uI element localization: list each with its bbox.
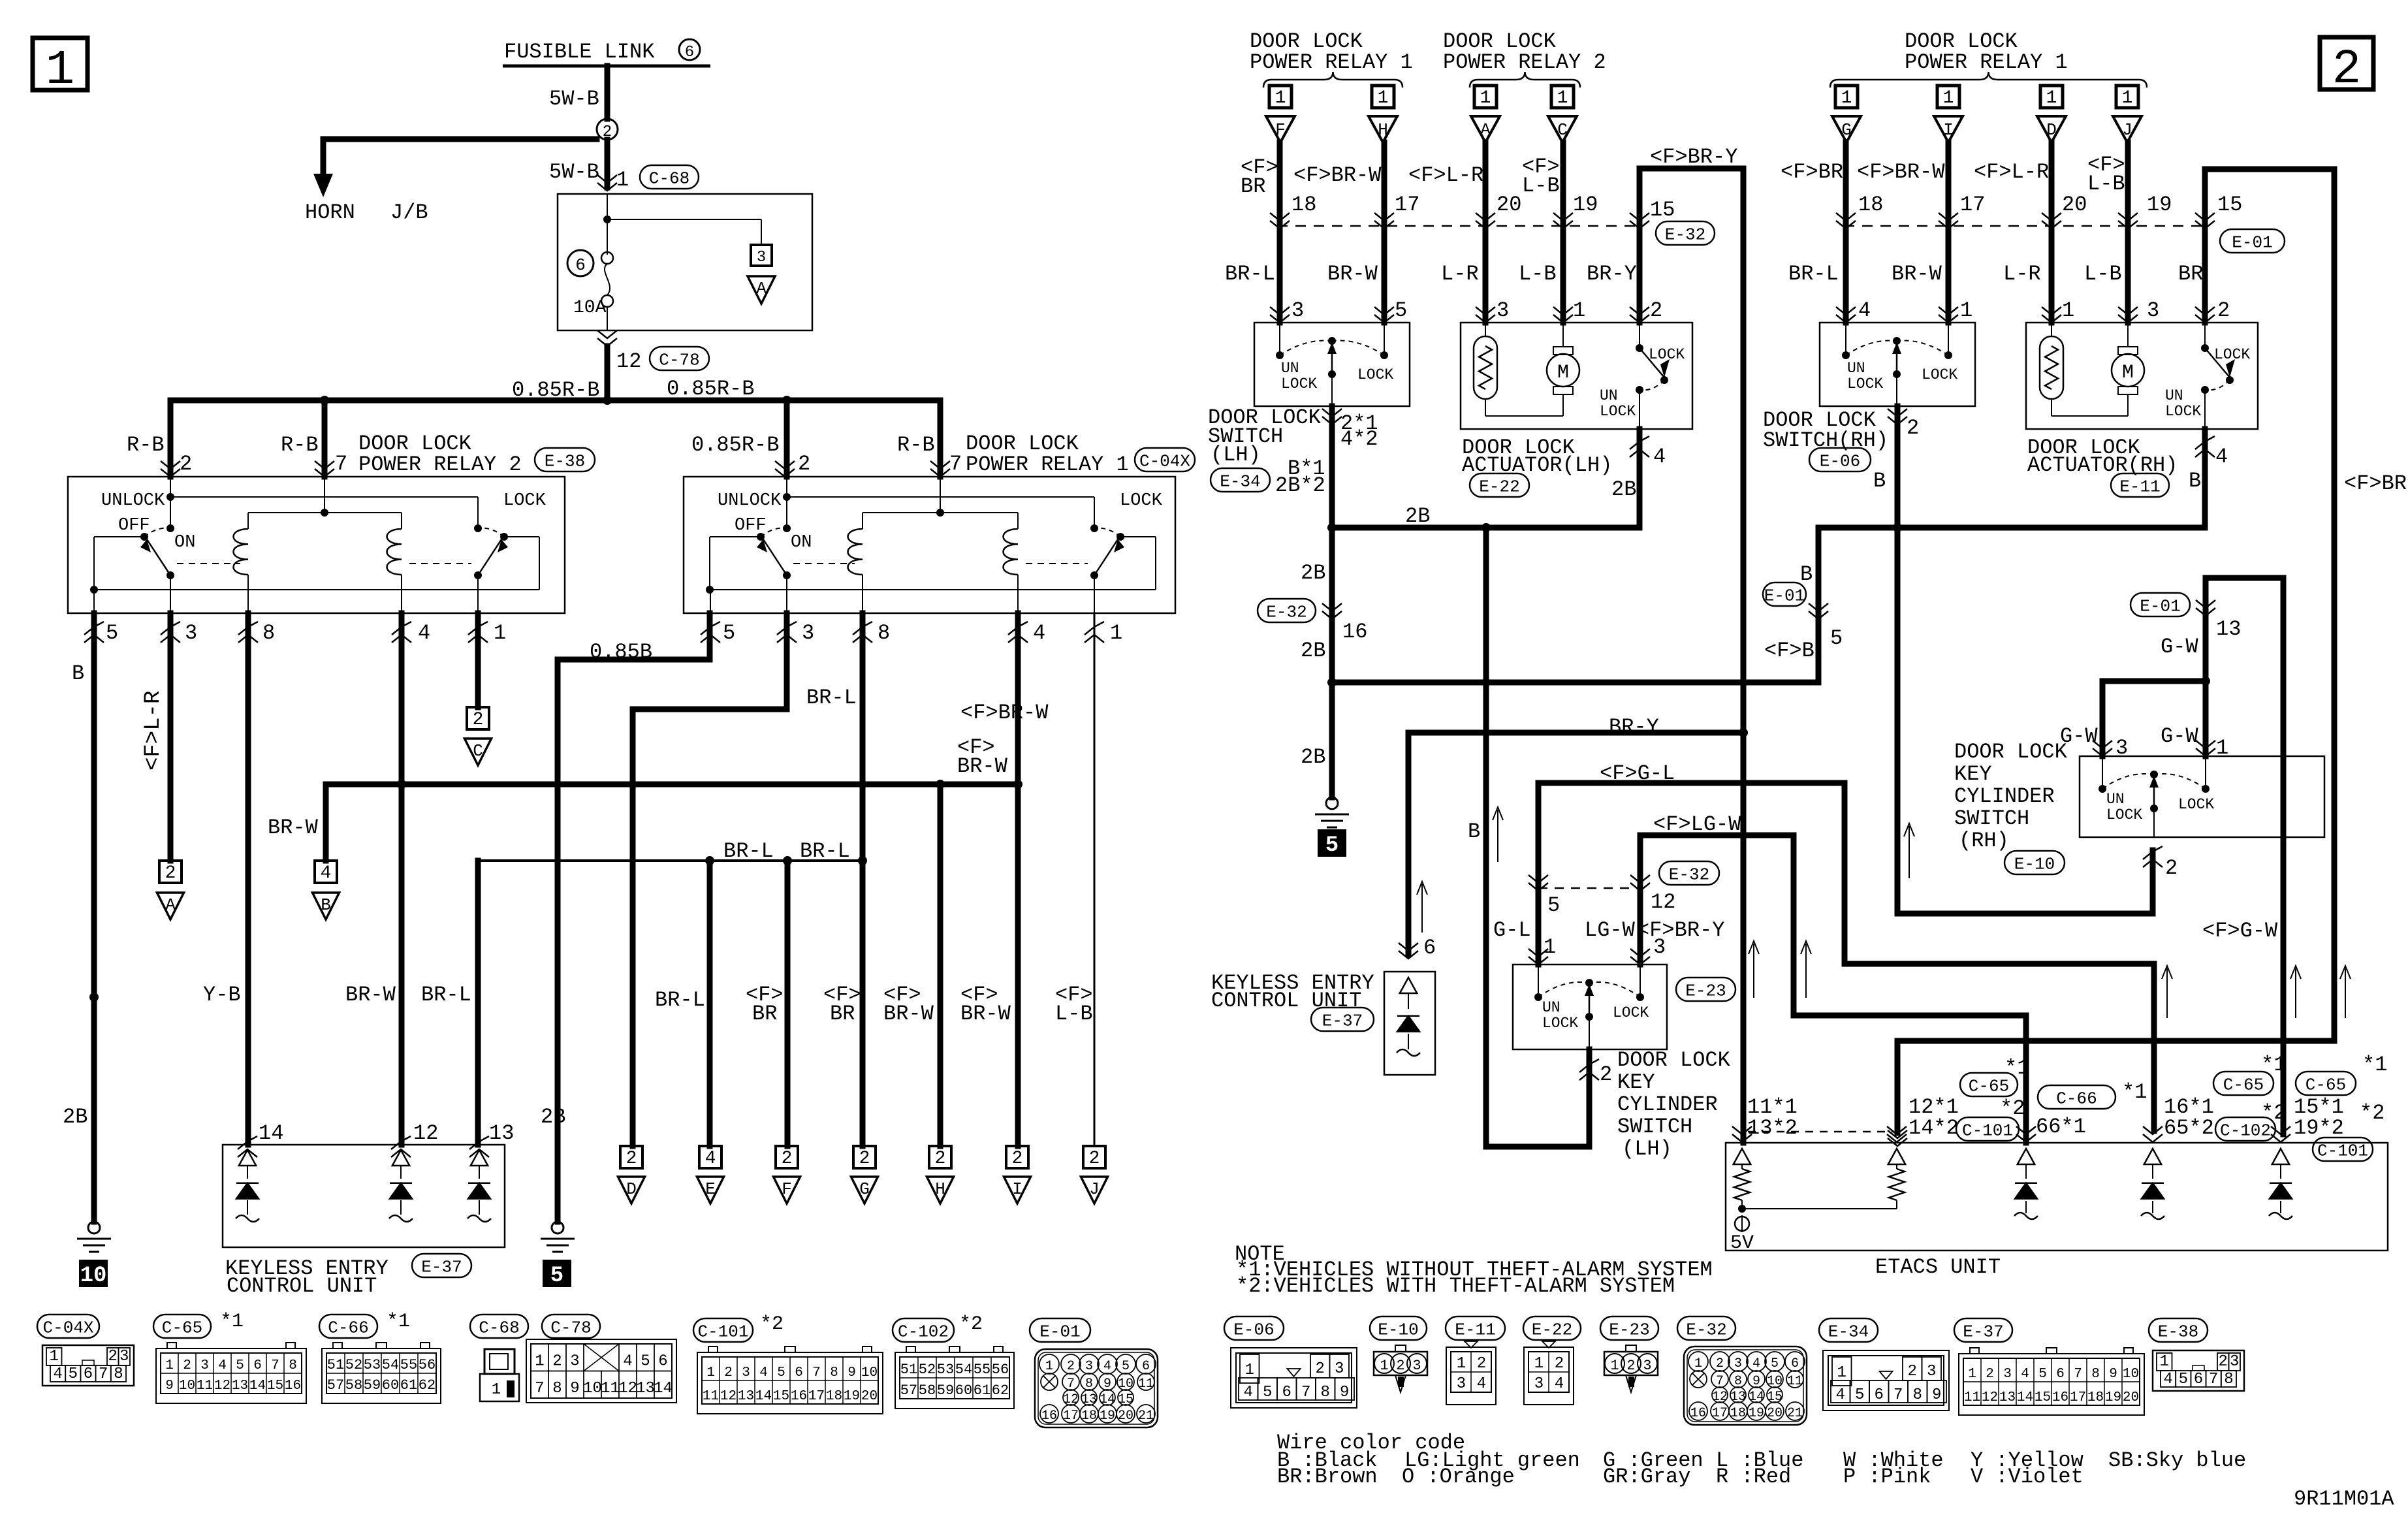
svg-text:LOCK: LOCK (1357, 366, 1393, 383)
svg-text:20: 20 (1497, 193, 1521, 217)
svg-text:5: 5 (2179, 1371, 2188, 1388)
svg-text:2: 2 (724, 1365, 733, 1380)
svg-text:BR: BR (830, 1002, 855, 1026)
svg-text:BR-Y: BR-Y (1587, 262, 1637, 286)
svg-text:4: 4 (418, 621, 430, 645)
svg-text:SWITCH: SWITCH (1954, 806, 2029, 831)
svg-text:C-101: C-101 (1962, 1121, 2013, 1140)
svg-text:<F>L-R: <F>L-R (1408, 163, 1483, 187)
svg-text:18: 18 (826, 1389, 842, 1404)
svg-text:4: 4 (705, 1149, 716, 1169)
svg-text:*1: *1 (2261, 1053, 2286, 1077)
svg-text:7: 7 (2074, 1367, 2082, 1382)
svg-text:2B: 2B (541, 1105, 565, 1129)
svg-text:BR-L: BR-L (1788, 262, 1839, 286)
svg-text:62: 62 (992, 1382, 1009, 1399)
svg-text:G: G (859, 1179, 870, 1199)
svg-text:*1: *1 (387, 1311, 410, 1333)
svg-text:*2: *2 (959, 1313, 983, 1335)
svg-text:3: 3 (1927, 1363, 1936, 1380)
svg-text:58: 58 (345, 1377, 362, 1394)
svg-text:KEY: KEY (1954, 762, 1992, 786)
svg-text:BR-L: BR-L (421, 983, 471, 1007)
svg-text:3: 3 (119, 1348, 129, 1365)
svg-text:BR-L: BR-L (806, 686, 857, 710)
svg-text:D: D (2046, 120, 2057, 140)
svg-text:1: 1 (706, 1365, 715, 1380)
svg-text:6: 6 (685, 44, 694, 61)
svg-text:B: B (1468, 820, 1480, 844)
svg-text:2: 2 (180, 452, 192, 476)
svg-text:13: 13 (232, 1379, 248, 1394)
svg-text:6: 6 (2194, 1371, 2203, 1388)
svg-text:I: I (1943, 120, 1954, 140)
svg-text:*2: *2 (2360, 1101, 2384, 1125)
svg-text:18: 18 (1291, 193, 1316, 217)
svg-text:E-01: E-01 (2140, 596, 2180, 616)
svg-text:UN: UN (1600, 387, 1618, 404)
svg-text:1: 1 (535, 1353, 544, 1371)
svg-text:<F>G-W: <F>G-W (2202, 919, 2278, 943)
svg-text:G-W: G-W (2161, 724, 2198, 748)
svg-text:2: 2 (1477, 1355, 1486, 1373)
svg-text:E-23: E-23 (1685, 981, 1726, 1000)
svg-text:3: 3 (1412, 1358, 1421, 1374)
svg-text:E-06: E-06 (1233, 1320, 1274, 1339)
svg-text:E-34: E-34 (1220, 471, 1260, 491)
svg-text:UN: UN (2106, 791, 2125, 808)
svg-text:LG-W: LG-W (1585, 918, 1636, 942)
svg-text:60: 60 (382, 1377, 399, 1394)
svg-text:1: 1 (1960, 298, 1972, 323)
svg-text:L-B: L-B (1055, 1002, 1093, 1026)
svg-text:20: 20 (2062, 193, 2087, 217)
svg-text:16: 16 (1690, 1406, 1706, 1421)
svg-text:7: 7 (271, 1358, 279, 1373)
svg-text:BR-W: BR-W (883, 1002, 934, 1026)
svg-text:59: 59 (364, 1377, 381, 1394)
svg-text:G: G (1841, 120, 1852, 140)
svg-text:7: 7 (335, 452, 347, 476)
svg-text:17: 17 (1960, 193, 1985, 217)
svg-text:BR-L: BR-L (723, 839, 774, 863)
svg-text:POWER RELAY 2: POWER RELAY 2 (1443, 50, 1606, 74)
svg-text:*2: *2 (760, 1313, 784, 1335)
svg-text:L-B: L-B (1522, 174, 1560, 198)
svg-text:L-R: L-R (2003, 262, 2041, 286)
svg-text:LOCK: LOCK (2106, 806, 2142, 823)
svg-text:3: 3 (1653, 935, 1666, 959)
svg-text:3: 3 (570, 1353, 579, 1371)
svg-text:R :Red: R :Red (1716, 1465, 1791, 1489)
svg-text:1: 1 (2062, 298, 2074, 323)
svg-text:1: 1 (494, 621, 506, 645)
svg-text:*2:VEHICLES WITH THEFT-ALARM S: *2:VEHICLES WITH THEFT-ALARM SYSTEM (1236, 1274, 1675, 1298)
svg-text:ETACS UNIT: ETACS UNIT (1875, 1255, 2001, 1279)
svg-text:POWER RELAY 1: POWER RELAY 1 (1250, 50, 1413, 74)
svg-text:A: A (756, 279, 767, 298)
svg-text:1: 1 (1534, 1355, 1544, 1373)
svg-text:3: 3 (2147, 298, 2159, 323)
svg-text:3: 3 (1457, 1375, 1466, 1393)
svg-text:1: 1 (1275, 88, 1286, 108)
svg-text:4: 4 (1752, 1356, 1760, 1371)
svg-text:3: 3 (1734, 1356, 1742, 1371)
svg-text:4: 4 (1858, 298, 1871, 323)
svg-text:1: 1 (1841, 88, 1852, 108)
svg-text:HORN: HORN (305, 200, 355, 225)
svg-text:E-10: E-10 (2014, 854, 2055, 874)
svg-text:12: 12 (618, 1380, 637, 1397)
svg-text:1: 1 (165, 1358, 174, 1373)
svg-text:3: 3 (2230, 1353, 2239, 1371)
svg-text:E-37: E-37 (1322, 1011, 1363, 1030)
svg-text:5: 5 (550, 1264, 563, 1288)
svg-text:1: 1 (50, 1348, 59, 1365)
svg-text:BR-W: BR-W (960, 1002, 1011, 1026)
svg-text:E-37: E-37 (421, 1257, 462, 1277)
svg-text:11: 11 (703, 1389, 719, 1404)
svg-text:(LH): (LH) (1622, 1137, 1672, 1161)
svg-text:<F>BR-W: <F>BR-W (960, 701, 1049, 725)
svg-text:4: 4 (2021, 1367, 2029, 1382)
svg-text:2: 2 (2217, 298, 2230, 323)
svg-text:BR:Brown: BR:Brown (1277, 1465, 1378, 1489)
svg-text:BR-L: BR-L (655, 988, 705, 1012)
svg-text:8: 8 (1913, 1386, 1922, 1404)
svg-text:2B: 2B (63, 1105, 87, 1129)
svg-text:R-B: R-B (127, 433, 165, 457)
svg-text:*1: *1 (2122, 1080, 2147, 1104)
svg-text:10A: 10A (573, 298, 607, 318)
svg-text:B: B (321, 895, 331, 915)
svg-text:2: 2 (626, 1149, 637, 1169)
svg-text:10: 10 (179, 1379, 195, 1394)
svg-text:6: 6 (575, 255, 586, 275)
svg-text:13: 13 (489, 1121, 514, 1145)
svg-text:M: M (2122, 362, 2134, 384)
svg-text:BR-W: BR-W (1892, 262, 1942, 286)
svg-text:6: 6 (1791, 1356, 1799, 1371)
svg-text:1: 1 (2122, 88, 2133, 108)
svg-text:8: 8 (262, 621, 275, 645)
svg-text:1: 1 (1380, 1358, 1388, 1374)
svg-text:UN: UN (1281, 360, 1299, 377)
svg-text:9: 9 (1340, 1384, 1349, 1401)
svg-text:LOCK: LOCK (503, 491, 547, 511)
svg-text:4: 4 (2215, 445, 2228, 469)
svg-text:52: 52 (345, 1357, 362, 1373)
svg-text:<F>BR: <F>BR (2344, 471, 2407, 496)
svg-text:E-23: E-23 (1609, 1320, 1649, 1339)
svg-text:E-37: E-37 (1963, 1322, 2003, 1341)
svg-text:A: A (165, 895, 176, 915)
svg-text:L-B: L-B (1519, 262, 1557, 286)
svg-text:9: 9 (848, 1365, 856, 1380)
svg-text:1: 1 (1378, 88, 1389, 108)
svg-text:E-38: E-38 (545, 451, 585, 471)
svg-text:5: 5 (1830, 626, 1843, 650)
svg-text:51: 51 (327, 1357, 344, 1373)
svg-text:R-B: R-B (897, 433, 935, 457)
svg-text:11: 11 (1138, 1377, 1154, 1392)
svg-text:KEY: KEY (1617, 1070, 1655, 1094)
svg-text:5: 5 (777, 1365, 785, 1380)
svg-text:O :Orange: O :Orange (1402, 1465, 1515, 1489)
svg-text:E-01: E-01 (1764, 586, 1805, 605)
svg-text:UNLOCK: UNLOCK (101, 491, 165, 511)
svg-text:4*2: 4*2 (1340, 427, 1378, 451)
svg-text:3: 3 (1085, 1359, 1093, 1374)
svg-text:5: 5 (1122, 1359, 1130, 1374)
svg-text:LOCK: LOCK (1542, 1015, 1578, 1032)
svg-text:4: 4 (1836, 1386, 1845, 1404)
svg-text:0.85R-B: 0.85R-B (691, 433, 779, 457)
svg-text:2: 2 (1396, 1358, 1404, 1374)
svg-text:13: 13 (636, 1380, 655, 1397)
svg-text:2: 2 (1907, 416, 1919, 440)
svg-text:G-W: G-W (2161, 635, 2198, 659)
svg-text:BR-W: BR-W (268, 816, 319, 840)
svg-text:2: 2 (1316, 1360, 1325, 1378)
svg-text:E-34: E-34 (1828, 1322, 1869, 1341)
svg-text:5: 5 (1263, 1384, 1272, 1401)
svg-text:14: 14 (2017, 1390, 2033, 1405)
svg-text:11: 11 (1964, 1390, 1980, 1405)
svg-text:4: 4 (1244, 1384, 1253, 1401)
svg-text:10: 10 (583, 1380, 602, 1397)
svg-text:<F>BR: <F>BR (1781, 160, 1843, 184)
svg-text:LOCK: LOCK (1922, 366, 1957, 383)
svg-text:6: 6 (795, 1365, 803, 1380)
svg-text:13*2: 13*2 (1747, 1116, 1798, 1140)
svg-text:<F>BR-Y: <F>BR-Y (1637, 918, 1724, 942)
svg-text:19: 19 (2147, 193, 2172, 217)
svg-text:2B: 2B (1301, 745, 1325, 769)
svg-text:ON: ON (174, 533, 195, 552)
svg-text:2B: 2B (1611, 477, 1636, 502)
svg-text:7: 7 (812, 1365, 821, 1380)
svg-text:57: 57 (327, 1377, 344, 1394)
svg-text:F: F (782, 1179, 792, 1199)
svg-text:E-32: E-32 (1669, 865, 1709, 884)
svg-text:1: 1 (46, 43, 74, 98)
svg-text:2: 2 (859, 1149, 870, 1169)
svg-text:*1: *1 (220, 1311, 244, 1333)
svg-text:4: 4 (218, 1358, 227, 1373)
svg-text:1: 1 (1610, 1358, 1619, 1374)
svg-text:BR-L: BR-L (1225, 262, 1275, 286)
svg-text:V :Violet: V :Violet (1971, 1465, 2083, 1489)
svg-text:8: 8 (114, 1365, 123, 1383)
svg-text:J: J (1089, 1179, 1100, 1199)
svg-text:POWER RELAY 2: POWER RELAY 2 (358, 453, 522, 477)
svg-text:2: 2 (935, 1149, 946, 1169)
svg-text:3: 3 (200, 1358, 209, 1373)
svg-text:8: 8 (1321, 1384, 1330, 1401)
svg-text:M: M (1557, 362, 1569, 384)
svg-text:C-65: C-65 (2223, 1075, 2264, 1094)
svg-text:SB:Sky blue: SB:Sky blue (2108, 1448, 2246, 1473)
svg-text:E-01: E-01 (1039, 1322, 1080, 1341)
svg-text:<F>BR-W: <F>BR-W (1857, 160, 1945, 184)
svg-text:4: 4 (321, 863, 332, 884)
svg-text:11: 11 (197, 1379, 213, 1394)
svg-text:E-10: E-10 (1378, 1320, 1418, 1339)
svg-text:52: 52 (919, 1362, 936, 1378)
svg-text:UN: UN (2165, 387, 2183, 404)
svg-text:E-22: E-22 (1479, 477, 1519, 496)
svg-text:18: 18 (1858, 193, 1883, 217)
svg-text:19: 19 (2105, 1390, 2121, 1405)
svg-text:I: I (1012, 1179, 1022, 1199)
svg-text:20: 20 (1767, 1406, 1782, 1421)
svg-text:C-68: C-68 (479, 1318, 519, 1337)
svg-text:A: A (1480, 120, 1491, 140)
svg-text:2: 2 (2165, 856, 2178, 880)
svg-text:C-78: C-78 (659, 350, 699, 370)
svg-text:19: 19 (1573, 193, 1598, 217)
svg-text:LOCK: LOCK (2165, 403, 2201, 420)
svg-text:UNLOCK: UNLOCK (718, 491, 782, 511)
svg-text:58: 58 (919, 1382, 936, 1399)
svg-text:5: 5 (106, 621, 118, 645)
svg-text:3: 3 (2003, 1367, 2012, 1382)
svg-text:65*2: 65*2 (2164, 1116, 2214, 1140)
svg-text:5W-B: 5W-B (549, 160, 599, 184)
svg-text:7: 7 (2209, 1371, 2218, 1388)
svg-text:21: 21 (1138, 1409, 1154, 1424)
svg-text:E-32: E-32 (1266, 602, 1307, 622)
svg-text:5: 5 (723, 621, 735, 645)
svg-text:2B: 2B (1301, 639, 1325, 663)
svg-text:6: 6 (2056, 1367, 2065, 1382)
svg-text:20: 20 (1118, 1409, 1133, 1424)
svg-text:55: 55 (400, 1357, 417, 1373)
svg-text:1: 1 (1045, 1359, 1053, 1374)
svg-text:1: 1 (1694, 1356, 1702, 1371)
svg-text:3: 3 (1335, 1360, 1344, 1378)
svg-text:1: 1 (1544, 935, 1556, 959)
svg-text:BR-Y: BR-Y (1609, 715, 1659, 739)
svg-text:13: 13 (738, 1389, 754, 1404)
svg-text:E-06: E-06 (1820, 451, 1860, 471)
svg-text:C-101: C-101 (697, 1322, 748, 1341)
svg-text:16: 16 (2052, 1390, 2068, 1405)
svg-text:C-65: C-65 (2305, 1075, 2346, 1094)
svg-text:*1: *1 (2362, 1053, 2387, 1077)
svg-text:LOCK: LOCK (1613, 1004, 1649, 1021)
svg-text:4: 4 (53, 1365, 62, 1383)
svg-text:3: 3 (742, 1365, 750, 1380)
svg-text:2: 2 (473, 710, 484, 730)
svg-text:2: 2 (782, 1149, 793, 1169)
svg-text:POWER RELAY 1: POWER RELAY 1 (1905, 50, 2068, 74)
svg-text:<F>BR-Y: <F>BR-Y (1650, 145, 1737, 169)
svg-text:L-B: L-B (2084, 262, 2122, 286)
svg-text:14: 14 (259, 1121, 283, 1145)
svg-text:7: 7 (99, 1365, 108, 1383)
svg-text:CYLINDER: CYLINDER (1617, 1092, 1718, 1117)
svg-text:E-32: E-32 (1686, 1320, 1726, 1339)
svg-text:8: 8 (830, 1365, 838, 1380)
svg-text:E-22: E-22 (1532, 1320, 1572, 1339)
svg-text:2: 2 (1716, 1356, 1724, 1371)
svg-text:ON: ON (791, 533, 812, 552)
svg-text:12: 12 (413, 1121, 438, 1145)
svg-text:L-R: L-R (1441, 262, 1479, 286)
svg-text:5: 5 (1395, 298, 1407, 323)
svg-text:C-04X: C-04X (1139, 451, 1190, 471)
svg-text:2: 2 (1067, 1359, 1075, 1374)
svg-text:16: 16 (285, 1379, 301, 1394)
svg-text:1: 1 (1943, 88, 1954, 108)
svg-text:6: 6 (1142, 1359, 1150, 1374)
svg-text:UN: UN (1542, 999, 1560, 1016)
svg-text:E: E (705, 1179, 716, 1199)
svg-text:7: 7 (949, 452, 962, 476)
svg-text:3: 3 (802, 621, 814, 645)
svg-text:1: 1 (616, 168, 629, 192)
svg-text:*2: *2 (2000, 1096, 2025, 1121)
svg-text:8: 8 (552, 1380, 562, 1397)
svg-text:60: 60 (955, 1382, 972, 1399)
svg-text:0.85R-B: 0.85R-B (667, 377, 754, 401)
svg-text:8: 8 (2224, 1371, 2233, 1388)
svg-text:1: 1 (1110, 621, 1122, 645)
svg-text:4: 4 (1103, 1359, 1111, 1374)
svg-text:2: 2 (1600, 1062, 1612, 1087)
svg-text:J: J (2122, 120, 2132, 140)
svg-text:5: 5 (1771, 1356, 1779, 1371)
svg-text:2: 2 (165, 863, 176, 884)
svg-text:G-L: G-L (1493, 918, 1531, 942)
svg-text:61: 61 (400, 1377, 417, 1394)
svg-text:LOCK: LOCK (1649, 346, 1685, 363)
svg-text:57: 57 (900, 1382, 917, 1399)
svg-text:18: 18 (1730, 1406, 1746, 1421)
svg-text:<F>L-R: <F>L-R (141, 691, 166, 771)
svg-text:9: 9 (1932, 1386, 1941, 1404)
svg-text:F: F (1275, 120, 1286, 140)
svg-text:C-04X: C-04X (42, 1318, 93, 1337)
svg-text:E-11: E-11 (1455, 1320, 1495, 1339)
svg-text:LOCK: LOCK (1281, 375, 1317, 392)
svg-text:OFF: OFF (735, 516, 767, 535)
svg-text:12: 12 (214, 1379, 230, 1394)
svg-text:2: 2 (2219, 1353, 2228, 1371)
svg-text:<F>LG-W: <F>LG-W (1653, 812, 1741, 837)
svg-text:DOOR LOCK: DOOR LOCK (1617, 1048, 1731, 1072)
svg-text:GR:Gray: GR:Gray (1603, 1465, 1690, 1489)
svg-text:BR: BR (752, 1002, 777, 1026)
svg-text:6: 6 (1282, 1384, 1291, 1401)
svg-text:1: 1 (1837, 1364, 1846, 1382)
svg-text:8: 8 (289, 1358, 297, 1373)
svg-text:53: 53 (364, 1357, 381, 1373)
svg-text:6: 6 (253, 1358, 262, 1373)
svg-text:4: 4 (1653, 445, 1666, 469)
svg-text:2: 2 (1650, 298, 1662, 323)
svg-text:8: 8 (2091, 1367, 2100, 1382)
svg-text:4: 4 (1555, 1375, 1564, 1393)
svg-text:4: 4 (1477, 1375, 1486, 1393)
svg-text:18: 18 (1081, 1409, 1097, 1424)
svg-text:DOOR LOCK: DOOR LOCK (1954, 740, 2068, 764)
svg-text:59: 59 (937, 1382, 954, 1399)
svg-text:LOCK: LOCK (1120, 491, 1163, 511)
svg-text:CYLINDER: CYLINDER (1954, 784, 2055, 808)
